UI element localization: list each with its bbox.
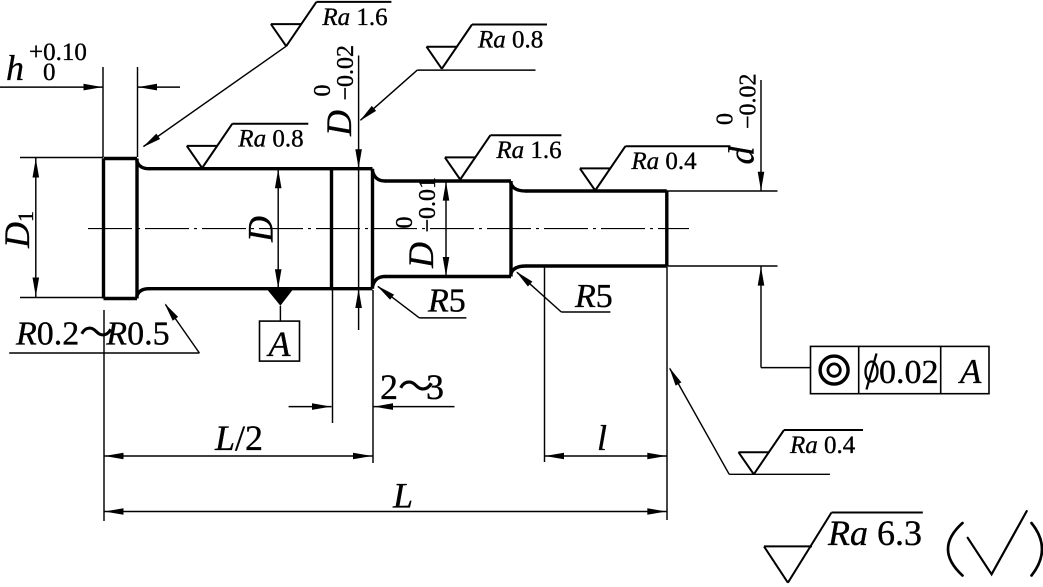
label h +0.10/0 bbox=[6, 39, 87, 88]
datum A letter bbox=[267, 324, 292, 364]
dimension L/2 line bbox=[104, 453, 373, 460]
svg-text:1: 1 bbox=[13, 211, 38, 222]
surface finish Ra 0.8 symbol (D section) bbox=[187, 124, 308, 168]
dimension d lower line + leader to tolerance frame bbox=[758, 266, 811, 367]
datum A filled triangle bbox=[267, 290, 293, 306]
svg-text:A: A bbox=[267, 324, 292, 364]
D-0.01 section bottom edge bbox=[385, 275, 511, 278]
svg-text:Ra 0.8: Ra 0.8 bbox=[237, 126, 303, 153]
dimension L line bbox=[104, 508, 667, 515]
dimension 2-3 extension right bbox=[372, 290, 374, 463]
label 2~3 bbox=[380, 367, 444, 407]
dimension D1 line bbox=[33, 158, 40, 297]
svg-text:Ra 1.6: Ra 1.6 bbox=[321, 4, 387, 31]
surface finish Ra 6.3 symbol (general) bbox=[764, 513, 923, 583]
fillet R5 top (groove to D-0.01 section) bbox=[373, 171, 386, 181]
svg-text:h: h bbox=[6, 48, 24, 88]
groove left wall bbox=[330, 169, 333, 289]
svg-text:Ra 0.8: Ra 0.8 bbox=[477, 27, 543, 54]
datum A stem bbox=[279, 306, 281, 321]
parenthesis right bbox=[1032, 523, 1043, 576]
D section top edge bbox=[149, 167, 373, 170]
svg-text:R5: R5 bbox=[574, 278, 613, 315]
d section top edge bbox=[526, 189, 667, 192]
fillet R0.2-R0.5 bottom (flange to D section) bbox=[137, 289, 149, 296]
surface finish Ra 0.8 (groove) leader bbox=[360, 70, 536, 121]
concentricity symbol bbox=[820, 356, 848, 384]
shaft left end face (flange D1) bbox=[102, 159, 105, 299]
dimension 2-3 line right bbox=[374, 403, 455, 410]
centerline bbox=[88, 228, 689, 230]
D-0.01 section top edge bbox=[385, 179, 511, 182]
datum A frame bbox=[260, 321, 300, 361]
dimension D-0.02 line bbox=[355, 56, 362, 331]
dimension l extension left bbox=[544, 267, 546, 462]
svg-text:d: d bbox=[722, 146, 762, 165]
svg-text:D: D bbox=[319, 110, 359, 137]
svg-text:Ra 6.3: Ra 6.3 bbox=[827, 513, 922, 553]
flange right face bbox=[135, 159, 138, 299]
svg-text:2～3: 2～3 bbox=[380, 367, 444, 407]
svg-text:R0.2～R0.5: R0.2～R0.5 bbox=[15, 316, 170, 353]
surface finish Ra 1.6 symbol (D-0.01 section) bbox=[445, 135, 562, 179]
surface finish Ra 0.4 symbol lower right bbox=[739, 430, 864, 474]
dimension 2-3 line left bbox=[289, 403, 332, 410]
label d 0/-0.02 bbox=[713, 73, 762, 164]
dimension h extension line right bbox=[137, 67, 139, 157]
surface finish Ra 0.8 symbol upper bbox=[427, 25, 548, 69]
groove right wall bbox=[371, 169, 374, 289]
surface finish Ra 0.4 (end face) leader bbox=[669, 367, 830, 474]
svg-text:l: l bbox=[597, 418, 607, 458]
svg-text:D: D bbox=[241, 216, 281, 243]
label D1 bbox=[0, 211, 38, 249]
dimension L extension right bbox=[666, 267, 668, 520]
fillet R5 bottom (step to d section) bbox=[511, 266, 526, 274]
leader R5 (step fillet) bbox=[516, 271, 610, 312]
parenthesis left bbox=[948, 523, 963, 576]
fillet R5 top (step to d section) bbox=[511, 184, 526, 192]
shaft right end face bbox=[665, 191, 668, 266]
dimension D-0.01 line bbox=[443, 181, 450, 276]
flange bottom edge bbox=[104, 297, 138, 300]
leader R5 (groove fillet) bbox=[377, 286, 466, 318]
dimension L/2 extension left bbox=[103, 310, 105, 521]
flange top edge bbox=[104, 157, 138, 160]
surface finish Ra 1.6 (flange fillet) leader bbox=[143, 46, 287, 147]
leader R0.2~R0.5 bbox=[9, 303, 199, 353]
svg-text:Ra 0.4: Ra 0.4 bbox=[789, 432, 856, 459]
basic symbol checkmark bbox=[968, 511, 1027, 574]
dimension 2-3 extension left bbox=[332, 290, 334, 423]
tolerance datum letter A bbox=[958, 352, 982, 391]
dimension h extension line left bbox=[102, 67, 104, 157]
step face (D-0.01 to d section) bbox=[509, 181, 512, 277]
dimension d extension bottom bbox=[667, 265, 778, 267]
label D 0/-0.01 bbox=[392, 177, 441, 269]
label L/2 bbox=[214, 418, 263, 458]
label R5 second bbox=[574, 278, 613, 315]
tolerance frame box bbox=[811, 346, 990, 393]
svg-text:0.02: 0.02 bbox=[879, 354, 939, 391]
svg-text:L/2: L/2 bbox=[214, 418, 263, 458]
dimension d extension top bbox=[667, 190, 778, 192]
dimension D1 extension top bbox=[20, 157, 103, 159]
svg-text:A: A bbox=[958, 352, 982, 391]
svg-text:D: D bbox=[0, 222, 37, 249]
svg-text:Ra 1.6: Ra 1.6 bbox=[495, 137, 561, 164]
label R5 first bbox=[427, 283, 466, 320]
label L bbox=[392, 476, 413, 516]
dimension D line bbox=[275, 169, 282, 289]
svg-text:D: D bbox=[401, 242, 441, 269]
label R0.2~R0.5 bbox=[15, 316, 170, 353]
svg-text:R5: R5 bbox=[427, 283, 466, 320]
svg-text:Ra 0.4: Ra 0.4 bbox=[630, 148, 697, 175]
tolerance value phi 0.02 bbox=[866, 354, 939, 392]
dimension h line right part bbox=[138, 84, 181, 91]
surface finish Ra 1.6 symbol top-left bbox=[271, 2, 392, 46]
svg-text:L: L bbox=[392, 476, 413, 516]
surface finish Ra 0.4 symbol (d section) bbox=[580, 146, 731, 190]
dimension h line left part bbox=[0, 84, 103, 91]
dimension d upper line bbox=[758, 80, 765, 191]
label D bbox=[241, 216, 281, 243]
fillet R0.2-R0.5 top (flange to D section) bbox=[137, 162, 149, 169]
D section bottom edge bbox=[149, 287, 373, 290]
dimension D1 extension bottom bbox=[20, 297, 103, 299]
label D 0/-0.02 bbox=[310, 45, 359, 137]
label l bbox=[597, 418, 607, 458]
fillet R5 bottom (groove to D-0.01 section) bbox=[373, 277, 386, 287]
dimension l line bbox=[545, 453, 667, 460]
d section bottom edge bbox=[526, 264, 667, 267]
